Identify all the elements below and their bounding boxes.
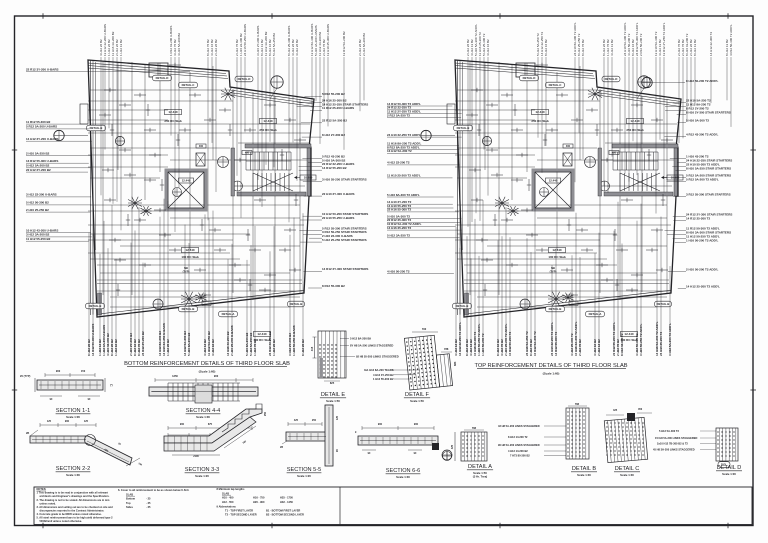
svg-text:788: 788 — [472, 427, 477, 430]
svg-text:14 H12 2Y-200 U-BARS: 14 H12 2Y-200 U-BARS — [26, 137, 59, 141]
svg-text:3 R12 5A-200 T2 ADD'L: 3 R12 5A-200 T2 ADD'L — [668, 323, 672, 356]
svg-text:DETAIL-B: DETAIL-B — [89, 304, 102, 308]
svg-text:100 RC Slab: 100 RC Slab — [181, 255, 199, 259]
svg-text:675: 675 — [208, 423, 213, 426]
svg-text:100 RC Slab: 100 RC Slab — [548, 255, 566, 259]
svg-text:1 H16 50-200 T2 ADD'L: 1 H16 50-200 T2 ADD'L — [686, 238, 718, 242]
svg-text:DETAIL-B: DETAIL-B — [549, 307, 562, 311]
svg-text:14 H12 25-200 T2 ADD'L: 14 H12 25-200 T2 ADD'L — [686, 284, 720, 288]
svg-text:(Scale 1:60): (Scale 1:60) — [199, 370, 216, 374]
svg-text:900: 900 — [414, 423, 419, 426]
svg-text:5 H12 50-300 B2: 5 H12 50-300 B2 — [26, 201, 49, 205]
svg-text:1 H12 16 B2: 1 H12 16 B2 — [114, 339, 118, 356]
svg-text:125: 125 — [336, 415, 339, 420]
svg-text:12.440: 12.440 — [535, 110, 545, 114]
svg-text:883: 883 — [453, 361, 457, 366]
svg-text:20 (TYP): 20 (TYP) — [20, 374, 31, 378]
svg-text:(TYP): (TYP) — [183, 269, 190, 273]
svg-text:2. The drawing is not to be sc: 2. The drawing is not to be scaled. All … — [37, 498, 111, 502]
svg-text:4 H12 26 B2: 4 H12 26 B2 — [295, 39, 299, 56]
svg-text:24 H16 50-250 U-BARS: 24 H16 50-250 U-BARS — [243, 24, 247, 56]
svg-text:5 R12 5A-200 T2 ADD'L: 5 R12 5A-200 T2 ADD'L — [686, 177, 719, 181]
svg-text:2x10 H12 7B-300 B2 & T2: 2x10 H12 7B-300 B2 & T2 — [657, 442, 688, 446]
svg-text:Top: Top — [126, 501, 131, 505]
svg-text:4 H12 16 B2: 4 H12 16 B2 — [211, 339, 215, 356]
svg-text:9 Abbreviations: 9 Abbreviations — [217, 504, 237, 508]
svg-text:24 R12 2Y-200 B2: 24 R12 2Y-200 B2 — [141, 331, 145, 356]
svg-text:5 H12 5A-250 B2: 5 H12 5A-250 B2 — [272, 33, 276, 56]
svg-text:250: 250 — [312, 419, 317, 422]
svg-text:Scale 1:30: Scale 1:30 — [577, 473, 591, 477]
svg-text:DETAIL-B: DETAIL-B — [456, 304, 469, 308]
svg-text:(TYP): (TYP) — [550, 269, 557, 273]
svg-text:3 H12 22-300 U-BARS: 3 H12 22-300 U-BARS — [26, 193, 57, 197]
svg-text:10.899: 10.899 — [304, 176, 313, 180]
svg-text:500N/mm2 unless noted otherwis: 500N/mm2 unless noted otherwise. — [40, 519, 83, 523]
svg-text:B1 - BOTTOM FIRST LAYER: B1 - BOTTOM FIRST LAYER — [266, 508, 300, 512]
svg-text:5 H16 8A-300 T2 ADD'L: 5 H16 8A-300 T2 ADD'L — [387, 193, 420, 197]
svg-text:13 R12 55-300 T2: 13 R12 55-300 T2 — [554, 331, 558, 356]
svg-text:12.440: 12.440 — [624, 332, 634, 336]
svg-text:5 H10 8A-200 B2: 5 H10 8A-200 B2 — [187, 332, 191, 356]
svg-text:11 H12 55-250 B2: 11 H12 55-250 B2 — [26, 237, 51, 241]
svg-text:14 H12 22-300 T2: 14 H12 22-300 T2 — [709, 32, 713, 56]
svg-text:Scale 1:36: Scale 1:36 — [196, 415, 210, 419]
svg-text:2 H12 26 B2: 2 H12 26 B2 — [214, 39, 218, 56]
svg-text:5 R12 55-200 B2: 5 R12 55-200 B2 — [322, 92, 345, 96]
svg-text:5 H16 5A-300 T2: 5 H16 5A-300 T2 — [686, 118, 709, 122]
svg-text:900: 900 — [56, 369, 61, 373]
svg-text:12.440: 12.440 — [257, 332, 267, 336]
svg-text:SECTION 5-5: SECTION 5-5 — [287, 467, 322, 473]
svg-text:22 H10 55-250 U-BARS: 22 H10 55-250 U-BARS — [322, 216, 354, 220]
svg-text:Scale 1:30: Scale 1:30 — [620, 473, 634, 477]
svg-text:NB: NB — [184, 266, 188, 270]
svg-text:1 H12 76 B2: 1 H12 76 B2 — [253, 339, 257, 356]
svg-text:24 H10 25-200 T2: 24 H10 25-200 T2 — [659, 331, 663, 356]
svg-text:12.440: 12.440 — [263, 119, 273, 123]
svg-text:12.440: 12.440 — [168, 110, 178, 114]
svg-text:(*): (*) — [110, 384, 113, 387]
svg-text:Scale 1:06: Scale 1:06 — [66, 415, 80, 419]
svg-text:12.440: 12.440 — [549, 179, 558, 183]
svg-text:1 H10 50-200 T2: 1 H10 50-200 T2 — [481, 333, 485, 356]
svg-text:2100: 2100 — [193, 455, 199, 458]
svg-text:125: 125 — [47, 420, 52, 423]
svg-text:discrepancies reported to the: discrepancies reported to the Contract A… — [40, 509, 105, 513]
svg-text:DETAIL B: DETAIL B — [572, 466, 597, 472]
svg-text:Bottom: Bottom — [126, 497, 136, 501]
svg-text:825: 825 — [330, 381, 335, 385]
svg-text:H16 - 750: H16 - 750 — [253, 496, 265, 500]
svg-text:(3 Hr. Trea): (3 Hr. Trea) — [473, 475, 488, 479]
svg-text:DETAIL-D: DETAIL-D — [238, 77, 251, 81]
svg-text:2 H10 25-250 B2: 2 H10 25-250 B2 — [26, 208, 49, 212]
svg-text:2 H10 50-200 T2 ADD'L: 2 H10 50-200 T2 ADD'L — [686, 267, 718, 271]
svg-text:12.440: 12.440 — [182, 179, 191, 183]
svg-text:2 H12 13 B2: 2 H12 13 B2 — [597, 339, 601, 356]
svg-text:900: 900 — [180, 423, 185, 426]
svg-text:250: 250 — [264, 411, 267, 416]
svg-text:5 H12 25-250 STAIR STARTERS: 5 H12 25-250 STAIR STARTERS — [322, 238, 367, 242]
svg-text:2 R12 50-200 T2: 2 R12 50-200 T2 — [639, 33, 643, 56]
svg-text:13 H12 5A-200 T2: 13 H12 5A-200 T2 — [387, 149, 412, 153]
svg-text:1 This drawing is to be read: 1 This drawing is to be read in conjunct… — [37, 491, 109, 495]
svg-text:8 H12 13 B2: 8 H12 13 B2 — [693, 39, 697, 56]
svg-text:- 25: - 25 — [146, 497, 151, 501]
svg-text:1 H12 26 B2: 1 H12 26 B2 — [272, 339, 276, 356]
svg-text:Scale 1:50: Scale 1:50 — [326, 399, 340, 403]
svg-text:5 R12 5A-200 U-BARS: 5 R12 5A-200 U-BARS — [26, 125, 57, 129]
svg-text:DETAIL D: DETAIL D — [717, 465, 742, 471]
svg-text:8 H12 50-200 T2 ADD'L: 8 H12 50-200 T2 ADD'L — [686, 79, 718, 83]
svg-text:400: 400 — [566, 145, 571, 148]
svg-text:SLAB: SLAB — [222, 491, 229, 495]
svg-text:900: 900 — [378, 423, 383, 426]
svg-text:150: 150 — [81, 369, 86, 373]
svg-text:DETAIL-D: DETAIL-D — [156, 76, 169, 80]
svg-text:400: 400 — [612, 152, 617, 155]
svg-text:DETAIL A: DETAIL A — [468, 464, 492, 470]
svg-text:2B: 2B — [26, 432, 29, 435]
svg-text:22 R12 3Y-200 U-BARS: 22 R12 3Y-200 U-BARS — [26, 67, 59, 71]
svg-text:14 H12 22-250 T2 ADD'L: 14 H12 22-250 T2 ADD'L — [458, 322, 462, 356]
svg-text:12.440: 12.440 — [552, 248, 562, 252]
svg-text:400: 400 — [199, 145, 204, 148]
svg-text:- 25: - 25 — [146, 505, 151, 509]
svg-text:Sides: Sides — [126, 505, 133, 509]
svg-text:Scale 1:20: Scale 1:20 — [195, 474, 209, 478]
svg-text:5 H12 8A-200 B9: 5 H12 8A-200 B9 — [350, 337, 371, 341]
svg-text:3 H10 50-250 T2 ADD'L: 3 H10 50-250 T2 ADD'L — [639, 324, 643, 356]
svg-text:790: 790 — [422, 327, 427, 331]
svg-text:2B: 2B — [280, 446, 283, 449]
svg-text:15/ H8 5A-200 LINKS STAGGERED: 15/ H8 5A-200 LINKS STAGGERED — [655, 436, 697, 440]
svg-text:22 H16 55-300 T2: 22 H16 55-300 T2 — [387, 208, 412, 212]
svg-text:13 R12 5A-200 B2: 13 R12 5A-200 B2 — [342, 31, 346, 56]
svg-text:DETAIL-C: DETAIL-C — [549, 83, 562, 87]
svg-text:SECTION 2-2: SECTION 2-2 — [56, 466, 91, 472]
svg-text:1 H12 26 B2: 1 H12 26 B2 — [166, 339, 170, 356]
svg-text:4 H16 50-250 T2: 4 H16 50-250 T2 — [387, 270, 410, 274]
svg-text:T2 - TOP SECOND LAYER: T2 - TOP SECOND LAYER — [225, 513, 257, 517]
svg-text:7 H73 80-300 B2: 7 H73 80-300 B2 — [510, 454, 530, 458]
svg-text:DETAIL-B: DETAIL-B — [182, 307, 195, 311]
svg-text:TOP REINFORCEMENT DETAILS O: TOP REINFORCEMENT DETAILS OF THIRD FLOOR… — [474, 363, 627, 369]
svg-text:6. Cover to all reinforcement: 6. Cover to all reinforcement to be as s… — [118, 488, 189, 492]
svg-text:8 H12 76 B2: 8 H12 76 B2 — [581, 39, 585, 56]
svg-text:125: 125 — [84, 420, 89, 423]
svg-text:5 H12 5A-300 T2: 5 H12 5A-300 T2 — [659, 429, 679, 433]
svg-text:DETAIL-B: DETAIL-B — [290, 302, 303, 306]
svg-text:90 H8 5A-200 LINKS STAGGERED: 90 H8 5A-200 LINKS STAGGERED — [498, 443, 540, 447]
svg-text:NB: NB — [551, 266, 555, 270]
svg-text:45 H8 3H-200 LINKS STAGGERED: 45 H8 3H-200 LINKS STAGGERED — [653, 448, 695, 452]
svg-text:Scale 1:36: Scale 1:36 — [66, 473, 80, 477]
svg-text:2 H12 8A-200 B2: 2 H12 8A-200 B2 — [362, 33, 366, 56]
svg-text:2 H10 5A-250 B2: 2 H10 5A-250 B2 — [26, 151, 50, 155]
svg-text:415: 415 — [310, 346, 314, 351]
svg-text:3x1 H12 8A-200 TEARS: 3x1 H12 8A-200 TEARS — [364, 368, 394, 372]
svg-text:250 RC Slab: 250 RC Slab — [164, 119, 182, 123]
svg-text:14 R12 55-200 B2: 14 R12 55-200 B2 — [322, 166, 347, 170]
svg-text:DETAIL F: DETAIL F — [405, 392, 430, 398]
svg-text:SECTION 4-4: SECTION 4-4 — [186, 408, 221, 414]
svg-text:13 H10 25-300 U-BARS: 13 H10 25-300 U-BARS — [326, 24, 330, 56]
svg-text:H12 - 550: H12 - 550 — [222, 500, 234, 504]
svg-text:2 H10 25-200 U-BARS: 2 H10 25-200 U-BARS — [230, 325, 234, 356]
svg-text:8 H12 2Y-300 B2: 8 H12 2Y-300 B2 — [322, 133, 345, 137]
svg-text:12.440: 12.440 — [185, 248, 195, 252]
svg-text:8 Minimum lap lengths: 8 Minimum lap lengths — [217, 487, 246, 491]
svg-text:4 R12 43-300 T2 ADD'L: 4 R12 43-300 T2 ADD'L — [686, 132, 718, 136]
svg-text:DETAIL-B: DETAIL-B — [657, 302, 670, 306]
svg-text:DETAIL C: DETAIL C — [615, 466, 640, 472]
svg-text:4 H12 22-200 T2: 4 H12 22-200 T2 — [387, 161, 410, 165]
svg-text:10 R12 5A-300 T2: 10 R12 5A-300 T2 — [533, 331, 537, 356]
svg-text:900: 900 — [214, 374, 219, 378]
svg-text:1 H16 50-250 U-BARS: 1 H16 50-250 U-BARS — [292, 325, 296, 356]
svg-text:- 25: - 25 — [146, 501, 151, 505]
svg-text:H10 - 450: H10 - 450 — [222, 496, 234, 500]
svg-text:42 H8 5A-200 LINKS STAGGERED: 42 H8 5A-200 LINKS STAGGERED — [498, 424, 540, 428]
svg-text:DETAIL-D: DETAIL-D — [605, 77, 618, 81]
svg-text:H20 - 900: H20 - 900 — [253, 500, 265, 504]
svg-text:13 R12 55-300 U-BARS: 13 R12 55-300 U-BARS — [26, 159, 58, 163]
svg-text:450: 450 — [638, 408, 643, 411]
svg-text:3 H16 55-250 STAIR STARTERS: 3 H16 55-250 STAIR STARTERS — [322, 178, 367, 182]
svg-text:SECTION 6-6: SECTION 6-6 — [386, 468, 421, 474]
svg-text:unless noted.: unless noted. — [40, 501, 57, 505]
svg-text:Scale 1:00: Scale 1:00 — [722, 472, 736, 476]
svg-text:22 R12 5A-300 B2: 22 R12 5A-300 B2 — [322, 119, 347, 123]
svg-text:425: 425 — [294, 419, 299, 422]
svg-text:788: 788 — [444, 347, 449, 351]
svg-text:425: 425 — [613, 409, 618, 412]
svg-text:2 H12 76 B2: 2 H12 76 B2 — [578, 339, 582, 356]
svg-text:SECTION 3-3: SECTION 3-3 — [185, 467, 220, 473]
svg-text:250 RC Slab: 250 RC Slab — [531, 119, 549, 123]
svg-text:425: 425 — [451, 444, 454, 449]
svg-text:architects and Engineer's draw: architects and Engineer's drawings and t… — [40, 494, 110, 498]
svg-text:788: 788 — [575, 403, 580, 406]
svg-text:2 R12 5A-250 T2: 2 R12 5A-250 T2 — [387, 113, 410, 117]
svg-text:4. Concrete grade to be M245 u: 4. Concrete grade to be M245 unless note… — [37, 512, 102, 516]
svg-text:14 R12 2Y-300 STAIR STARTERS: 14 R12 2Y-300 STAIR STARTERS — [322, 267, 368, 271]
svg-text:1 H12 13 B2: 1 H12 13 B2 — [119, 39, 123, 56]
svg-text:DETAIL-B: DETAIL-B — [90, 126, 103, 130]
svg-text:8 H12 16 B2: 8 H12 16 B2 — [544, 39, 548, 56]
svg-text:DETAIL E: DETAIL E — [321, 392, 346, 398]
svg-text:8 H12 26 B2: 8 H12 26 B2 — [301, 339, 305, 356]
svg-text:12.440: 12.440 — [630, 119, 640, 123]
svg-text:H32 - 1450: H32 - 1450 — [280, 500, 293, 504]
svg-text:DETAIL-B: DETAIL-B — [457, 126, 470, 130]
svg-text:8Y H8 5A-200 LINKS STAGGERED: 8Y H8 5A-200 LINKS STAGGERED — [350, 344, 393, 348]
svg-text:8 R12 55-300 B2: 8 R12 55-300 B2 — [322, 284, 345, 288]
svg-text:8 H10 5A-250 STAIR STARTERS: 8 H10 5A-250 STAIR STARTERS — [686, 166, 731, 170]
svg-text:400: 400 — [245, 152, 250, 155]
svg-text:11 H10 25-200 T2 ADD'L: 11 H10 25-200 T2 ADD'L — [387, 174, 421, 178]
svg-text:NOTES:: NOTES: — [37, 487, 47, 491]
svg-text:13 R12 2Y-250 T2 ADD'L: 13 R12 2Y-250 T2 ADD'L — [662, 22, 666, 56]
svg-text:10 R12 50-200 T2: 10 R12 50-200 T2 — [508, 331, 512, 356]
svg-text:H25 - 1750: H25 - 1750 — [280, 496, 293, 500]
svg-text:BOTTOM REINFORCEMENT DETAILS: BOTTOM REINFORCEMENT DETAILS OF THIRD FL… — [124, 361, 290, 367]
svg-text:22 H10 2Y-300 U-BARS: 22 H10 2Y-300 U-BARS — [322, 192, 355, 196]
svg-text:Scale 1:50: Scale 1:50 — [410, 399, 424, 403]
svg-text:8 H16 2Y-300 STAIR STARTERS: 8 H16 2Y-300 STAIR STARTERS — [686, 110, 731, 114]
svg-text:14 R12 25-200 T2: 14 R12 25-200 T2 — [686, 216, 711, 220]
svg-text:5. All steel reinforcement bar: 5. All steel reinforcement bars to be hi… — [37, 516, 114, 520]
svg-text:B2 - BOTTOM SECOND LAYER: B2 - BOTTOM SECOND LAYER — [266, 513, 304, 517]
svg-text:14 R12 50-300 U-BARS: 14 R12 50-300 U-BARS — [91, 324, 95, 356]
svg-text:(Scale 1:60): (Scale 1:60) — [543, 372, 560, 376]
svg-text:Scale 1:20: Scale 1:20 — [297, 474, 311, 478]
svg-text:22 H12 2Y-200 B2: 22 H12 2Y-200 B2 — [26, 168, 51, 172]
svg-text:4 H16 5A-200 B2: 4 H16 5A-200 B2 — [177, 33, 181, 56]
svg-text:3. All dimensions and setting: 3. All dimensions and setting out are to… — [37, 505, 114, 509]
svg-text:24 H10 22-250 T2 ADD'L: 24 H10 22-250 T2 ADD'L — [387, 133, 421, 137]
svg-text:1350: 1350 — [172, 374, 178, 378]
svg-text:5 H12 3A-250 T2: 5 H12 3A-250 T2 — [387, 234, 410, 238]
svg-text:92 H8 55-200 LINKS STAGGERED: 92 H8 55-200 LINKS STAGGERED — [356, 355, 399, 359]
svg-text:11 R12 55-300 B2: 11 R12 55-300 B2 — [26, 120, 51, 124]
svg-text:SECTION 1-1: SECTION 1-1 — [56, 408, 91, 414]
svg-text:4 H12 13 B2: 4 H12 13 B2 — [610, 39, 614, 56]
svg-text:4 H12 16 B2: 4 H12 16 B2 — [486, 39, 490, 56]
svg-text:SLAB: SLAB — [126, 492, 133, 496]
svg-text:3 R12 55-300 STAIR STARTERS: 3 R12 55-300 STAIR STARTERS — [686, 192, 731, 196]
svg-text:DETAIL-D: DETAIL-D — [523, 76, 536, 80]
svg-text:Scale 1:30: Scale 1:30 — [396, 475, 410, 479]
svg-text:4 H12 3Y-250 B2: 4 H12 3Y-250 B2 — [373, 373, 394, 377]
svg-text:11 R12 25-200 U-BARS: 11 R12 25-200 U-BARS — [322, 106, 354, 110]
svg-text:14 H16 25-200 T2: 14 H16 25-200 T2 — [387, 226, 412, 230]
svg-text:1 H12 55-200 B2: 1 H12 55-200 B2 — [373, 377, 394, 381]
svg-text:4 H12 13-200 B2: 4 H12 13-200 B2 — [508, 449, 528, 453]
svg-text:DETAIL-C: DETAIL-C — [182, 83, 195, 87]
svg-text:900: 900 — [65, 420, 70, 423]
svg-text:T1 - TOP FIRST LAYER: T1 - TOP FIRST LAYER — [225, 508, 253, 512]
svg-text:4 R12 50-300 T2 ADD'L: 4 R12 50-300 T2 ADD'L — [729, 24, 733, 56]
svg-text:8 R12 43-300 T2: 8 R12 43-300 T2 — [620, 333, 624, 356]
svg-text:8 H12 13-200 T2: 8 H12 13-200 T2 — [508, 435, 528, 439]
